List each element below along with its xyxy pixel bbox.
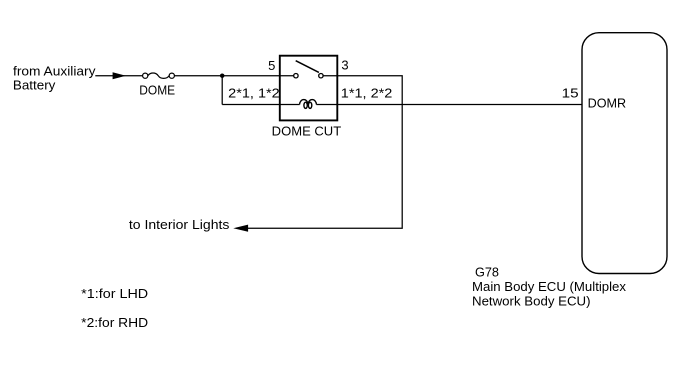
svg-text:15: 15 <box>562 86 579 101</box>
svg-text:from Auxiliary: from Auxiliary <box>13 64 96 79</box>
svg-text:G78: G78 <box>475 265 499 280</box>
svg-text:to Interior Lights: to Interior Lights <box>129 217 230 232</box>
svg-text:3: 3 <box>341 57 348 72</box>
svg-text:2*1, 1*2: 2*1, 1*2 <box>228 86 280 101</box>
svg-text:*1:for LHD: *1:for LHD <box>81 286 148 301</box>
svg-text:5: 5 <box>268 58 275 73</box>
svg-text:DOME: DOME <box>139 83 175 98</box>
svg-text:Main Body ECU (Multiplex: Main Body ECU (Multiplex <box>472 279 627 294</box>
svg-text:Network Body ECU): Network Body ECU) <box>472 294 591 309</box>
svg-text:DOME CUT: DOME CUT <box>272 123 342 138</box>
svg-text:Battery: Battery <box>13 77 56 92</box>
svg-text:1*1, 2*2: 1*1, 2*2 <box>341 85 393 100</box>
svg-text:*2:for RHD: *2:for RHD <box>81 315 148 330</box>
svg-text:DOMR: DOMR <box>588 95 627 110</box>
